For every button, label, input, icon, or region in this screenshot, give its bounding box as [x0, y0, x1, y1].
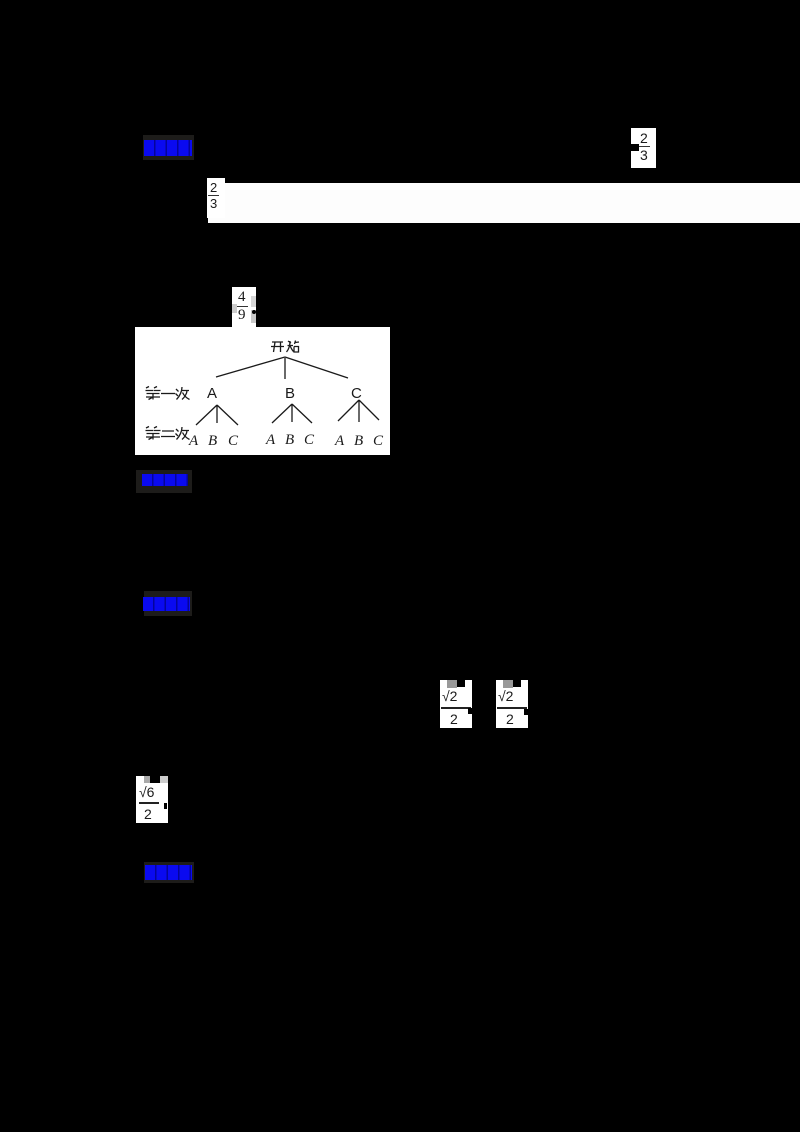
svg-text:C: C	[351, 385, 362, 402]
svg-text:C: C	[304, 432, 315, 448]
svg-text:A: A	[207, 385, 217, 402]
svg-text:C: C	[228, 433, 239, 449]
svg-text:C: C	[373, 433, 384, 449]
svg-text:B: B	[285, 432, 294, 448]
svg-text:A: A	[334, 433, 345, 449]
svg-text:B: B	[354, 433, 363, 449]
svg-text:A: A	[188, 433, 199, 449]
svg-text:B: B	[208, 433, 217, 449]
svg-text:A: A	[265, 432, 276, 448]
svg-text:B: B	[285, 385, 295, 402]
